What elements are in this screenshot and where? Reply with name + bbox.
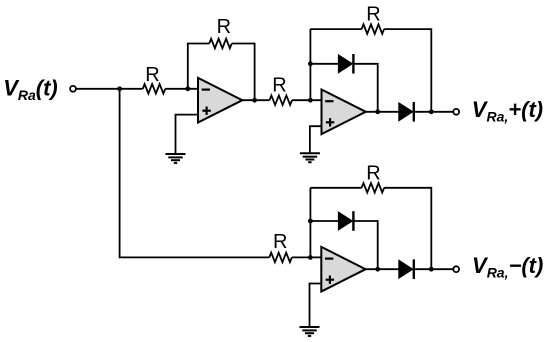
wire D1 to U2 output vertical [353,64,377,112]
wire R3 to op-amp U3 inverting input [292,256,322,258]
svg-text:VRa,−(t): VRa,−(t) [472,253,543,281]
wire D3 to U3 output vertical [353,221,377,269]
node output V+ [429,109,434,114]
wire feedback up-left of U1 [188,44,209,89]
wire D2 to output terminal [414,111,454,113]
resistor R3 (stage 3 input) [269,253,292,263]
wire U2 top rail right and down to output node [384,29,431,112]
wire U2 output [366,111,399,113]
op-amp U2 [322,90,366,135]
svg-text:R: R [217,16,231,38]
svg-text:VRa(t): VRa(t) [3,75,58,103]
wire R1 to op-amp U1 inverting input [165,88,198,90]
resistor R feedback U1 [209,39,232,49]
node U3 diode branch tap [308,219,313,224]
wire U3 diode branch left [310,220,338,222]
resistor R2 (stage 2 input) [270,95,293,105]
diode D4 (U3 output) [399,259,414,279]
node U3 output / diode branch join [375,267,380,272]
wire U3 top rail left [310,187,361,189]
wire input to R1 [76,88,143,90]
node U3 inverting input [308,255,313,260]
node output V- [429,267,434,272]
wire U2 top rail left [310,28,361,30]
wire U2 diode branch left [310,63,338,65]
node input junction [117,86,122,91]
wire R2 to op-amp U2 inverting input [292,99,322,101]
svg-text:R: R [366,4,380,26]
output terminal V_Ra,+(t) [453,109,459,115]
diode D1 (U2 feedback) [338,54,353,74]
svg-text:R: R [366,163,380,185]
output terminal V_Ra,-(t) [453,266,459,272]
wire junction down to lower stage [120,89,270,258]
resistor R feedback U2 [362,24,385,34]
diode D2 (U2 output) [399,102,414,122]
node U2 diode branch tap [308,61,313,66]
svg-text:VRa,+(t): VRa,+(t) [472,97,543,125]
svg-text:R: R [145,64,159,86]
input terminal V_Ra(t) [70,86,76,92]
wire U3 feedback left vertical [309,188,311,258]
wire U2 feedback left vertical [309,29,311,100]
ground U3 [300,327,320,336]
ground U1 [166,154,186,163]
node U2 inverting input [308,98,313,103]
wire U2 + input to ground [310,126,322,153]
op-amp U1 [198,78,242,123]
wire U1 output to R2 [242,99,270,101]
wire D4 to output terminal [414,268,454,270]
op-amp U3 [321,247,365,292]
resistor R1 [143,84,166,94]
diode D3 (U3 feedback) [338,211,353,231]
resistor R feedback U3 [362,183,385,193]
wire U1 + input to ground [176,115,199,154]
ground U2 [300,153,320,162]
wire feedback down to U1 output [232,44,255,101]
node U1 feedback tap [185,86,190,91]
wire U3 top rail right and down to output node [384,188,431,269]
node U2 output / diode branch join [375,109,380,114]
wire U3 output [365,268,399,270]
node U1 output [252,98,257,103]
wire U3 + input to ground [310,284,322,328]
svg-text:R: R [272,75,286,97]
svg-text:R: R [273,231,287,253]
